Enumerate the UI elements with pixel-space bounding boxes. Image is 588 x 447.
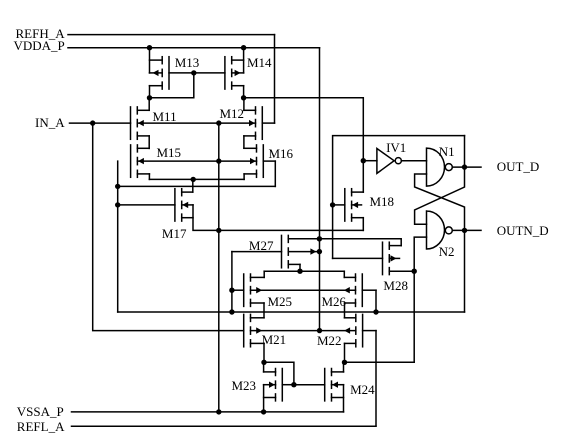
wire M25/M26 drains	[264, 270, 344, 272]
label M17	[162, 227, 187, 240]
junction M21 source / M23 drain	[261, 360, 266, 365]
label N2	[439, 245, 455, 258]
label M25	[268, 295, 293, 308]
transistor M27	[232, 235, 320, 267]
label VSSA_P	[17, 405, 64, 418]
junction VDDA-M13	[147, 45, 152, 50]
junction M27 source	[297, 269, 302, 274]
node VSSA_P rail	[72, 411, 344, 413]
wire REFH_A to M12/M16 gates (vertical)	[274, 35, 276, 124]
junction N1 out	[462, 164, 467, 169]
label OUT_D	[497, 160, 540, 173]
junction M26 gate to OUTN wire	[373, 309, 378, 314]
node A junction (M13 src / M11 drain)	[147, 95, 152, 100]
label OUTN_D	[497, 224, 549, 237]
node B junction (M14 src / M12 drain)	[241, 95, 246, 100]
transistor M25	[232, 274, 264, 306]
wire M25 drain step up	[263, 271, 265, 277]
transistor M15	[131, 145, 150, 177]
junction VDDA-M14	[241, 45, 246, 50]
label M14	[247, 56, 272, 69]
label IN_A	[35, 116, 65, 129]
wire M18 source down to tail	[362, 218, 364, 231]
wire M26 gate down	[375, 290, 377, 312]
label M28	[383, 279, 408, 292]
wire OUT_D feedback lower	[332, 205, 334, 259]
junction M18 gate	[330, 202, 335, 207]
wire M24 bulk/source to VSSA	[343, 385, 345, 412]
junction M22 source / M24 drain	[342, 360, 347, 365]
wire M17 drain up	[192, 179, 194, 192]
transistor M24	[294, 369, 344, 401]
wire M27 source down	[299, 264, 301, 271]
wire N1 out	[452, 166, 481, 168]
junction bulk rail / tail	[216, 120, 221, 125]
label M15	[157, 146, 182, 159]
wire tail bulk vertical	[218, 123, 220, 412]
label M12	[220, 107, 245, 120]
gate N2	[427, 211, 445, 249]
junction M27 drain	[317, 236, 322, 241]
label M21	[262, 333, 287, 346]
wire M17 source down to tail	[193, 205, 363, 231]
label M27	[249, 239, 274, 252]
wire M13-M14 gate line	[169, 72, 225, 74]
junction IN_A	[90, 120, 95, 125]
wire M23 drain up	[263, 362, 265, 372]
junction bulk rail 2 / tail	[216, 158, 221, 163]
wire M15 gate node vertical	[117, 161, 119, 312]
junction N2 out	[462, 228, 467, 233]
junction tail wire	[216, 228, 221, 233]
junction M25 gate	[229, 288, 234, 293]
wire M21 source down	[263, 343, 265, 362]
wire M15/M16 sources	[149, 178, 244, 180]
label M16	[269, 147, 294, 160]
wire M16 source down	[243, 174, 245, 180]
wire left node to gates	[264, 362, 294, 384]
label REFL_A	[17, 420, 65, 433]
wire M22 gate to REFL_A	[375, 331, 377, 426]
wire IV1 input	[363, 160, 377, 162]
wire M25-M26 bulk rail	[251, 289, 356, 291]
wire M15 source down	[148, 174, 150, 180]
wire M14 drain/bulk to VDDA	[243, 48, 245, 73]
wire M12 drain up	[243, 98, 245, 111]
transistor M12	[244, 107, 275, 139]
label M22	[317, 334, 342, 347]
label REFH_A	[16, 27, 65, 40]
transistor M21	[244, 314, 264, 346]
junction gate vertical to OUTN wire	[229, 309, 234, 314]
transistor M16	[244, 145, 275, 177]
node REFL_A rail	[72, 425, 377, 427]
label VDDA_P	[14, 39, 65, 52]
wire N2 out	[452, 229, 481, 231]
wire M26 source to M22 drain	[344, 303, 346, 318]
junction M23 to VSSA	[261, 409, 266, 414]
wire M11 drain up	[148, 98, 150, 111]
wire M16 gate down to gate-node wire	[274, 161, 276, 186]
wire IN_A down to M21 gate	[93, 123, 244, 331]
wire M22 source down	[344, 343, 346, 362]
wire M25 source to M21 drain	[263, 303, 265, 318]
wire M23 bulk/source to VSSA	[263, 385, 265, 412]
wire OUT_D feedback top	[333, 136, 465, 205]
transistor M14	[225, 57, 244, 89]
label M26	[322, 295, 347, 308]
wire M15-M16 bulk rail	[137, 160, 256, 162]
wire M12 source to M16 drain	[243, 136, 245, 148]
transistor M13	[150, 57, 170, 89]
node IN_A wire	[70, 122, 131, 124]
wire gate-node to M17 drain and M16 gate	[118, 185, 276, 187]
wire M27 drain to M28 drain	[319, 239, 401, 246]
wire M11 source to M15 drain	[148, 136, 150, 149]
wire cross N1out to N2in	[415, 167, 465, 224]
wire cross N2out to N1in	[415, 174, 465, 230]
gate N1	[427, 148, 445, 186]
label N1	[439, 145, 455, 158]
junction IV1 input	[361, 158, 366, 163]
transistor M26	[344, 274, 376, 306]
transistor M23	[264, 369, 294, 401]
node OUTN wire (to M15/M25/M26 gates)	[118, 311, 465, 313]
label M18	[370, 195, 395, 208]
wire M11-M12 bulk rail	[137, 122, 255, 124]
junction M28 source	[412, 269, 417, 274]
label M13	[175, 56, 200, 69]
transistor M28	[333, 242, 415, 274]
node VDDA_P rail	[68, 47, 320, 49]
label IV1	[386, 141, 406, 154]
wire right node to N2 input column	[345, 361, 415, 363]
transistor M11	[131, 107, 150, 139]
junction M23/M24 gates	[291, 382, 296, 387]
wire M13 source down	[149, 86, 151, 98]
label M11	[153, 110, 177, 123]
junction M27 bulk	[317, 249, 322, 254]
wire gates to node A	[150, 73, 194, 98]
node REFH_A rail	[68, 34, 275, 36]
junction M13/M14 gates	[191, 70, 196, 75]
wire M21-M22 bulk rail	[251, 330, 356, 332]
label M23	[232, 379, 257, 392]
junction VDDA-column / bulk rail	[317, 328, 322, 333]
wire N2 lower input	[414, 237, 426, 362]
wire N1 out up to top wire	[464, 136, 466, 168]
transistor M17	[118, 189, 193, 221]
transistor M18	[333, 189, 364, 221]
wire IV1 out to N1	[401, 160, 426, 162]
junction gate node tap	[115, 184, 120, 189]
wire M27/M25 gate vertical	[231, 252, 233, 312]
junction M17 gate	[115, 202, 120, 207]
wire VDDA down to M27 and M21/M22 bulks (vertical)	[319, 48, 321, 331]
wire M14 source down	[243, 86, 245, 98]
junction sources / M17 drain	[191, 177, 196, 182]
wire node B to IV1 column	[244, 98, 364, 192]
label M24	[350, 383, 375, 396]
inverter IV1	[377, 149, 394, 174]
wire M24 drain up	[343, 362, 345, 372]
transistor M22	[344, 314, 376, 346]
junction tail to VSSA	[216, 409, 221, 414]
wire N2 out down to OUTN node	[464, 230, 466, 312]
wire M13 drain/bulk to VDDA	[149, 48, 151, 73]
wire M26 drain step up	[343, 271, 345, 277]
